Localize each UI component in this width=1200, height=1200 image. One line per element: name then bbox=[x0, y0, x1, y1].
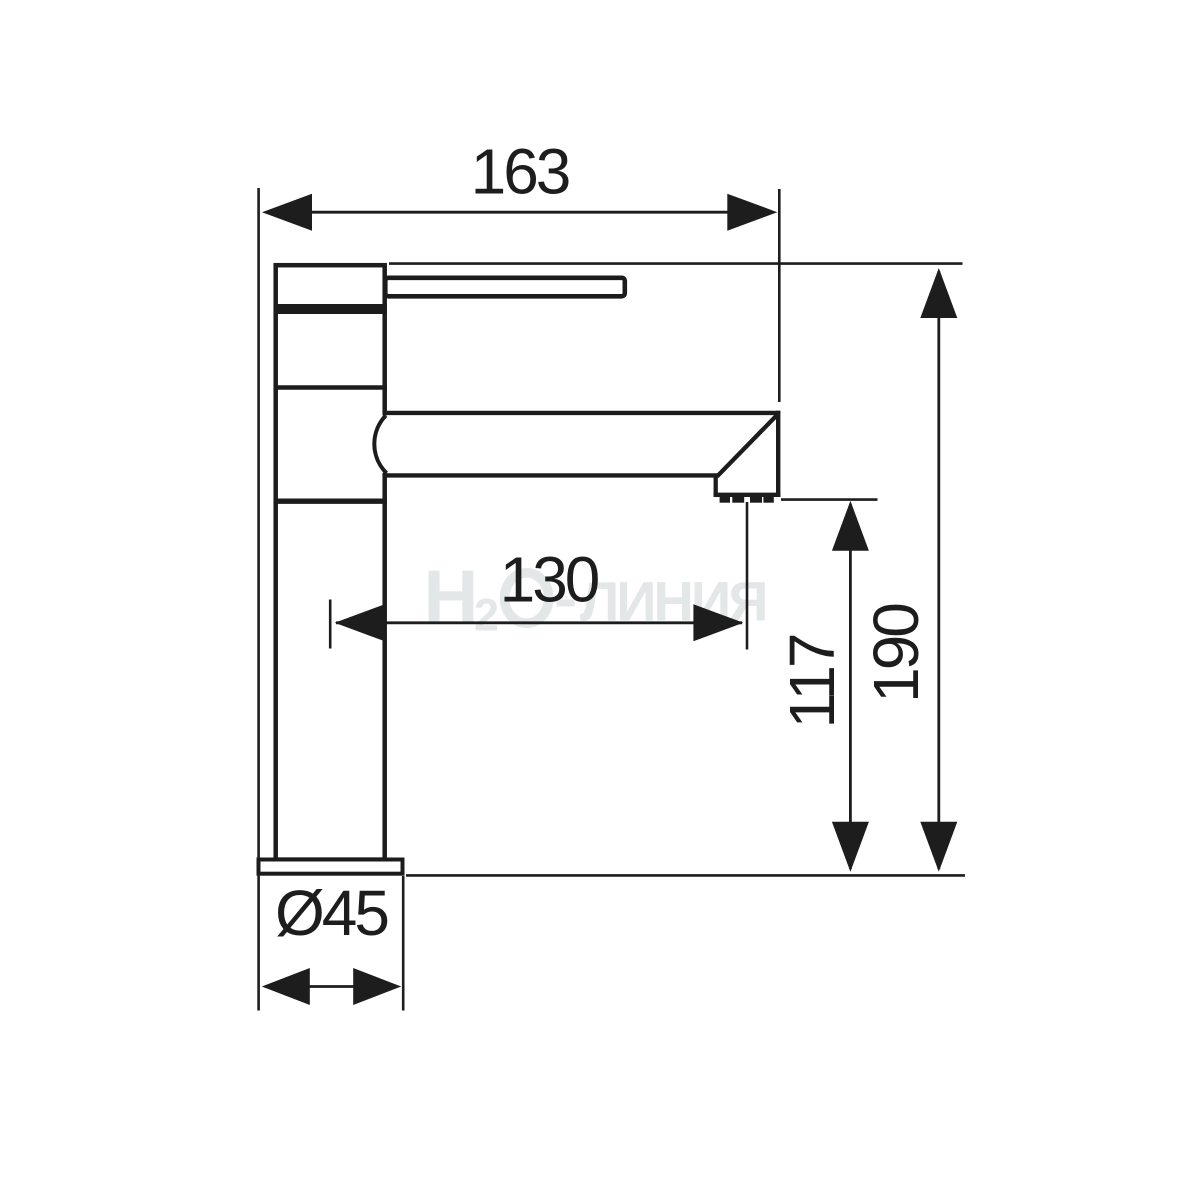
svg-text:2: 2 bbox=[474, 590, 499, 641]
dimension 130 right arrow bbox=[693, 604, 743, 641]
svg-text:163: 163 bbox=[471, 136, 569, 208]
dimension 190 bottom arrow bbox=[920, 822, 957, 872]
extension line bottom bbox=[406, 874, 965, 877]
extension line left bbox=[257, 188, 260, 1011]
aerator teeth bbox=[720, 497, 774, 503]
dimension 190 top arrow bbox=[920, 268, 957, 318]
dimension d45 line bbox=[306, 985, 356, 988]
extension line right of 163 bbox=[778, 189, 781, 402]
spout tip bottom edge bbox=[714, 493, 781, 497]
svg-text:H: H bbox=[424, 555, 479, 640]
dimension d45 left arrow bbox=[262, 968, 310, 1005]
dimension 190 line bbox=[937, 271, 940, 869]
spout joint arc bbox=[374, 416, 386, 474]
extension line from aerator bbox=[746, 502, 749, 650]
svg-text:Ø45: Ø45 bbox=[275, 877, 387, 949]
dimension 130 left arrow bbox=[335, 604, 385, 641]
dimension 117 line bbox=[849, 504, 852, 869]
dimension 130 line bbox=[336, 621, 742, 624]
dimension 163 left arrow bbox=[262, 194, 312, 231]
spout bottom edge bbox=[385, 473, 718, 477]
pillar divider 3 bbox=[274, 499, 388, 504]
dimension 163 right arrow bbox=[727, 194, 777, 231]
dimension 163 line bbox=[308, 211, 731, 214]
lever handle bbox=[385, 278, 625, 297]
svg-text:130: 130 bbox=[500, 544, 599, 616]
dimension 117 bottom arrow bbox=[832, 822, 869, 872]
dimension 130 centerline tick bbox=[329, 600, 332, 649]
extension line top for 190 bbox=[389, 262, 963, 265]
pillar divider 2 bbox=[274, 385, 388, 390]
faucet body pillar bbox=[276, 265, 385, 859]
spout junction erase bbox=[381, 415, 391, 472]
spout diagonal cut bbox=[717, 414, 779, 477]
svg-text:117: 117 bbox=[776, 635, 848, 728]
dimension d45 right extension bbox=[402, 876, 405, 1011]
pillar divider 1 (thick collar) bbox=[274, 304, 388, 314]
extension line 117 horizontal bbox=[781, 498, 878, 501]
dimension 117 top arrow bbox=[832, 501, 869, 551]
spout top edge bbox=[385, 411, 780, 415]
base flange bbox=[259, 860, 403, 874]
spout tip left edge bbox=[714, 475, 718, 497]
svg-text:190: 190 bbox=[860, 604, 932, 703]
spout right edge bbox=[776, 411, 780, 497]
watermark H2O-liniya bbox=[424, 555, 766, 641]
dimension d45 right arrow bbox=[353, 968, 401, 1005]
